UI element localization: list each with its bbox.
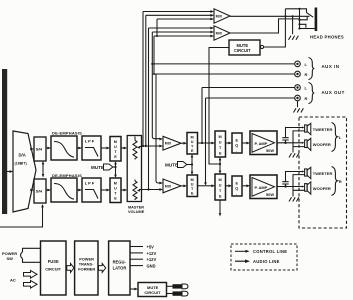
svg-text:U: U [191, 183, 194, 187]
arrow transformer to regulator [99, 263, 106, 272]
mute circuit block bottom [138, 283, 167, 297]
digital block edge at left [2, 69, 7, 214]
legend dashed box [231, 244, 297, 270]
node mute2 control [191, 163, 193, 165]
wire bundle vertical 2 [145, 15, 147, 146]
svg-text:FORMER: FORMER [78, 267, 95, 272]
wire input to D/A [7, 171, 11, 173]
jack sleeve wire [300, 28, 315, 30]
headphone jack J1 sleeve bar [315, 8, 318, 32]
wire to U2 input 3 [154, 35, 211, 37]
wire LPF L to mute [101, 147, 108, 149]
svg-text:+12V: +12V [147, 257, 157, 262]
wire power amp R output [277, 186, 302, 188]
wire S/H clock from left [0, 206, 43, 228]
jack lower switch contact [300, 24, 306, 28]
svg-text:MIX: MIX [216, 32, 223, 36]
svg-text:AUDIO LINE: AUDIO LINE [253, 259, 280, 264]
svg-text:(18BIT): (18BIT) [15, 162, 28, 166]
svg-text:DE-EMPHASIS: DE-EMPHASIS [52, 173, 82, 178]
capacitor C1 tweeter L [285, 140, 287, 143]
mute block 1L [110, 137, 121, 162]
wire AUX IN R [154, 73, 294, 75]
svg-text:E: E [191, 149, 194, 153]
svg-text:U: U [191, 140, 194, 144]
legend audio line arrow [235, 260, 246, 262]
svg-text:E: E [191, 192, 194, 196]
svg-text:50W: 50W [266, 148, 274, 153]
svg-text:S/H: S/H [36, 148, 43, 152]
node bundle joint b [153, 73, 155, 75]
wire mute3R control stub [219, 200, 221, 215]
svg-text:U: U [219, 184, 222, 188]
svg-text:MUTE: MUTE [91, 165, 104, 170]
ground headphone [289, 36, 299, 40]
wire bundle vertical 4 [152, 32, 160, 139]
svg-text:R: R [305, 72, 308, 77]
svg-text:L: L [305, 62, 308, 67]
SECTION: speakers [277, 117, 347, 228]
wire mute1 pair control [115, 163, 117, 177]
svg-text:T: T [219, 146, 222, 150]
wire mute circuit to headphone line [264, 16, 286, 47]
svg-text:T: T [191, 187, 194, 191]
wire bundle vertical 5 [154, 36, 160, 183]
wire mute2 R to mute3 R [198, 185, 213, 187]
jack tip switch contact [285, 9, 313, 17]
mute circuit block top [229, 40, 260, 55]
EQ block L [232, 133, 242, 153]
power transformer block [75, 241, 98, 295]
wire S/H L to de-emphasis [46, 147, 49, 149]
svg-text:E: E [114, 155, 117, 159]
svg-text:LPF: LPF [85, 139, 96, 144]
svg-text:M: M [114, 140, 117, 144]
node open terminal at mute circuit output [260, 45, 263, 48]
wire jack common to ground [292, 16, 294, 34]
jack bus wire [299, 9, 301, 29]
wire mix R out [181, 185, 185, 187]
wire mute1 R to master volume [121, 189, 125, 191]
low pass filter L [82, 136, 101, 160]
svg-text:TWEETER: TWEETER [313, 171, 333, 176]
svg-text:T: T [114, 150, 117, 154]
sample hold S/H L [34, 137, 46, 161]
svg-text:E: E [236, 139, 239, 143]
node aux out L junction [201, 142, 203, 144]
wire to U1 input 3 [157, 18, 211, 20]
wire regulator to mute circuit [130, 288, 136, 290]
svg-text:DE-EMPHASIS: DE-EMPHASIS [52, 130, 82, 135]
op-amp U4 mix L [163, 136, 181, 150]
svg-text:GND: GND [147, 264, 156, 269]
speaker enclosure dashed box [299, 117, 347, 228]
wire EQ R to power amp R [242, 185, 248, 187]
svg-text:M: M [219, 178, 222, 182]
connector aux in L [295, 61, 301, 67]
SECTION: main signal rows [0, 69, 277, 227]
SECTION: power supply [2, 241, 188, 297]
wire power amp L output [277, 142, 302, 144]
svg-text:AUX OUT: AUX OUT [322, 90, 345, 95]
svg-text:L: L [305, 86, 308, 91]
svg-text:50W: 50W [266, 192, 274, 197]
svg-text:CONTROL LINE: CONTROL LINE [253, 249, 287, 254]
svg-text:REGU-: REGU- [113, 260, 127, 265]
power amp block R [250, 175, 277, 199]
svg-text:E: E [219, 152, 222, 156]
ground aux jacks [294, 108, 304, 112]
wire GND output [130, 265, 143, 267]
connector plug 1 [173, 284, 183, 288]
SECTION: headphone amps top [143, 8, 344, 190]
de-emphasis block L [51, 136, 77, 160]
svg-text:L: L [339, 135, 342, 140]
svg-text:+12V: +12V [147, 251, 157, 256]
node jack bus top [298, 8, 300, 10]
svg-text:Q: Q [235, 144, 238, 148]
wire LPF R to mute [101, 189, 108, 191]
wire MV to mix R input2 [142, 189, 160, 191]
svg-text:S/H: S/H [36, 190, 43, 194]
mute block 2R [187, 175, 198, 197]
node bundle tap 2 [145, 145, 147, 147]
svg-text:U: U [114, 187, 117, 191]
svg-text:T: T [191, 145, 194, 149]
svg-text:LATOR: LATOR [113, 266, 127, 271]
wire aux ground [297, 101, 299, 107]
svg-text:U: U [219, 141, 222, 145]
brace speakers L [332, 123, 338, 152]
svg-text:MUTE: MUTE [165, 162, 178, 167]
SECTION: legend [231, 244, 297, 270]
svg-text:MIX: MIX [216, 15, 223, 19]
node bundle tap 3 [147, 188, 149, 190]
svg-text:M: M [219, 135, 222, 139]
wire S/H R to de-emphasis [46, 189, 49, 191]
wire D/A out L [30, 148, 32, 150]
wire to U2 input 2 [152, 31, 210, 33]
wire de-emphasis R to LPF [77, 189, 80, 191]
brace speakers R [332, 167, 338, 196]
svg-text:E: E [236, 182, 239, 186]
wire mute1 L to master volume [121, 147, 125, 149]
wire speaker R returns [293, 175, 305, 197]
svg-text:.: . [236, 192, 237, 196]
capacitor C2 tweeter R [285, 184, 287, 187]
master volume block [127, 136, 141, 202]
wire MV to mix L input1 [159, 138, 163, 141]
arrow fuse to transformer [67, 263, 74, 272]
node jack bus mid1 [298, 19, 300, 21]
node jack bus bottom [298, 27, 300, 29]
ground speakers R [289, 197, 299, 201]
low pass filter R [82, 178, 101, 202]
mute block 3R [215, 174, 226, 200]
wire to beep plug 1 [167, 285, 173, 287]
svg-text:WOOFER: WOOFER [313, 142, 331, 147]
AC input arrow 2 [24, 281, 38, 289]
brace aux in [309, 58, 315, 80]
regulator block [109, 241, 130, 295]
node jack bus mid2 [298, 23, 300, 25]
mute block 1R [110, 178, 121, 203]
potentiometer VR2 [133, 180, 137, 201]
mute control flag 2 [187, 164, 193, 166]
de-emphasis block R [51, 178, 77, 202]
svg-text:M: M [114, 182, 117, 186]
woofer R speaker [305, 184, 308, 192]
svg-text:CIRCUIT: CIRCUIT [45, 267, 61, 272]
svg-text:T: T [219, 189, 222, 193]
mute control flag 1 [113, 166, 116, 168]
svg-text:HEAD PHONES: HEAD PHONES [310, 35, 344, 40]
svg-text:MIX: MIX [165, 142, 172, 146]
svg-text:P. AMP: P. AMP [255, 185, 268, 190]
svg-text:D/A: D/A [19, 153, 26, 158]
wire D/A out R [30, 189, 32, 191]
connector plug 2 [173, 291, 183, 295]
connector aux out R [295, 95, 301, 101]
power amp block L [250, 131, 277, 155]
brace aux out [309, 83, 315, 104]
wire de-emphasis L to LPF [77, 147, 80, 149]
wire S/H pair link [42, 163, 44, 177]
jack ring contact [300, 17, 308, 20]
svg-text:SW: SW [7, 256, 14, 261]
wire AUX IN L [152, 63, 294, 65]
SECTION: aux jacks [151, 58, 345, 186]
wire AUX OUT L tap [202, 88, 294, 144]
svg-text:VOLUME: VOLUME [128, 210, 145, 214]
svg-text:.: . [236, 149, 237, 153]
svg-text:+5V: +5V [147, 245, 155, 250]
svg-text:LPF: LPF [85, 181, 96, 186]
wire U2 output to jack ring [230, 19, 300, 33]
wire mute3 L to EQ L [226, 142, 230, 144]
switch SW1 [21, 248, 41, 262]
svg-text:WOOFER: WOOFER [313, 186, 331, 191]
wire -12V output [130, 258, 143, 260]
wire mute3 pair control vertical [219, 159, 221, 173]
legend control line arrow [235, 250, 247, 252]
wire +12V output [130, 252, 143, 254]
wire mute2 L to mute3 L [198, 142, 213, 144]
tweeter R speaker [305, 169, 308, 176]
wire MV to mix R input1 [159, 182, 163, 185]
wire +5V output [130, 246, 143, 248]
AC input arrow 1 [24, 271, 38, 279]
svg-text:T: T [114, 192, 117, 196]
wire mute3 R to EQ R [226, 185, 230, 187]
connector aux out L [295, 85, 301, 91]
svg-text:CIRCUIT: CIRCUIT [234, 48, 251, 53]
svg-text:TWEETER: TWEETER [313, 127, 333, 132]
wire mute circuit control line down [209, 48, 229, 165]
tweeter L speaker [305, 125, 308, 132]
node bundle joint a [156, 35, 158, 37]
svg-text:M: M [191, 178, 194, 182]
node amp R out [284, 185, 286, 187]
wire MV to mix L input2 [142, 145, 160, 147]
fuse circuit block [41, 241, 67, 295]
wire AUX OUT R tap [206, 98, 295, 184]
svg-text:CIRCUIT: CIRCUIT [144, 290, 161, 295]
wire to U1 input 1 [143, 11, 211, 13]
potentiometer VR1 [133, 137, 137, 160]
wire speaker L returns [293, 131, 305, 153]
wire bundle vertical 6 [156, 19, 158, 36]
mute block 3L [215, 131, 226, 157]
node aux in L tap [151, 63, 153, 65]
svg-text:P. AMP: P. AMP [255, 141, 268, 146]
svg-text:MUTE: MUTE [237, 43, 249, 48]
wire to beep plug 2 [167, 293, 173, 295]
node jack common [292, 15, 294, 17]
svg-text:FUSE: FUSE [48, 259, 59, 264]
wire bundle vertical 1 [142, 12, 144, 147]
mute block 2L [187, 133, 198, 155]
node control junction [219, 163, 221, 165]
ground speakers L [289, 153, 299, 157]
node mute tap on headphone line [284, 15, 286, 17]
svg-text:E: E [219, 195, 222, 199]
wire to U2 input 1 [149, 27, 211, 29]
wire U1 output to jack tip [230, 15, 310, 17]
svg-text:U: U [114, 145, 117, 149]
node mute1 control [114, 166, 116, 168]
op-amp U1 headphone mix L [214, 9, 230, 23]
svg-text:MASTER: MASTER [128, 206, 144, 210]
connector aux in R [295, 71, 301, 77]
wire bundle vertical 3 [148, 28, 150, 190]
svg-text:AUX IN: AUX IN [322, 64, 340, 69]
svg-text:M: M [191, 136, 194, 140]
op-amp U5 mix R [163, 179, 181, 193]
svg-text:MIX: MIX [165, 184, 172, 188]
D/A converter U3 [13, 131, 36, 212]
wire mute2 pair control [191, 156, 193, 174]
op-amp U2 headphone mix R [214, 26, 230, 40]
svg-text:E: E [114, 197, 117, 201]
node amp L out [284, 142, 286, 144]
wire mix L out [181, 142, 185, 144]
woofer L speaker [305, 140, 308, 148]
svg-text:AC: AC [10, 278, 16, 283]
svg-text:R: R [305, 96, 308, 101]
sample hold S/H R [34, 179, 46, 203]
wire to U1 input 2 [146, 14, 211, 16]
wire EQ L to power amp L [242, 142, 248, 144]
svg-text:Q: Q [235, 187, 238, 191]
node bundle tap 1 [142, 145, 144, 147]
EQ block R [232, 176, 242, 196]
svg-text:R: R [339, 179, 342, 184]
